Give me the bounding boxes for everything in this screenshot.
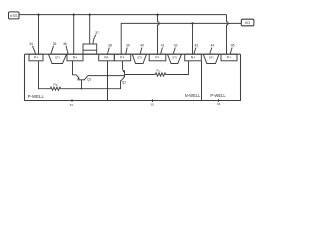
- transistor Q2: [122, 61, 126, 85]
- svg-text:STI: STI: [209, 56, 214, 60]
- label 39: [126, 44, 130, 54]
- svg-text:34: 34: [29, 42, 33, 46]
- svg-text:P+: P+: [155, 56, 159, 60]
- node junction Q1 base: [81, 88, 83, 90]
- node 33 tick: [217, 99, 221, 106]
- STI 35: [49, 54, 67, 63]
- pad box VSS: [9, 12, 20, 19]
- label 40: [140, 44, 144, 54]
- svg-text:P+: P+: [227, 56, 231, 60]
- label 45: [230, 44, 234, 54]
- well boundary P-WELL/N-WELL: [107, 61, 109, 101]
- wire Q2 base to Rn: [125, 74, 154, 76]
- svg-text:N+: N+: [191, 56, 195, 60]
- svg-text:P+: P+: [34, 56, 38, 60]
- node junction VSS bus N+36: [73, 14, 75, 16]
- substrate outline: [25, 54, 241, 100]
- wire drop to N+36: [73, 15, 75, 55]
- diffusion N+ 38: [99, 54, 115, 61]
- svg-text:P-WELL: P-WELL: [28, 94, 45, 99]
- svg-text:32: 32: [151, 103, 155, 107]
- wire drop to P+41 with hop over I/O bus: [158, 15, 160, 55]
- svg-text:n: n: [159, 71, 161, 73]
- diffusion P+ 34: [29, 54, 43, 61]
- node junction I/O bus N+43: [191, 22, 193, 24]
- svg-text:35: 35: [53, 42, 57, 46]
- svg-text:39: 39: [126, 44, 130, 48]
- label 41: [161, 44, 165, 54]
- svg-text:41: 41: [161, 44, 165, 48]
- wire I/O bus: [121, 23, 241, 54]
- well boundary N-WELL/P-WELL: [201, 61, 203, 101]
- node 31 tick: [70, 99, 74, 107]
- svg-text:I/O: I/O: [245, 20, 250, 25]
- wire Rn to N+43: [167, 61, 189, 75]
- label 36: [63, 42, 68, 54]
- wire Q1 collector to Q2 base: [88, 75, 125, 77]
- svg-text:42: 42: [174, 44, 178, 48]
- svg-text:STI: STI: [55, 56, 60, 60]
- svg-text:STI: STI: [137, 56, 142, 60]
- svg-text:40: 40: [140, 44, 144, 48]
- svg-text:N-WELL: N-WELL: [185, 93, 201, 98]
- STI 40: [132, 54, 146, 63]
- substrate surface line: [25, 53, 241, 55]
- pad box I/O: [241, 19, 254, 26]
- resistor Rp: [49, 82, 63, 90]
- svg-text:36: 36: [63, 42, 67, 46]
- node 32 tick: [151, 99, 155, 107]
- label 38: [108, 44, 112, 54]
- label 44: [210, 44, 215, 54]
- svg-text:Q2: Q2: [122, 81, 126, 85]
- resistor Rn: [154, 69, 168, 77]
- svg-text:31: 31: [70, 103, 74, 107]
- svg-text:45: 45: [231, 44, 235, 48]
- svg-text:VSS: VSS: [10, 13, 18, 18]
- svg-text:44: 44: [211, 44, 215, 48]
- STI 44: [203, 54, 219, 63]
- label 34: [29, 42, 35, 54]
- svg-text:38: 38: [108, 44, 112, 48]
- wire Rp to Q1 base and Q2 collector: [62, 80, 122, 89]
- diffusion P+ 45: [221, 54, 237, 61]
- wire drop to P+34: [38, 15, 40, 55]
- svg-text:P: P: [56, 85, 58, 87]
- label 37: [93, 31, 99, 43]
- svg-text:43: 43: [194, 44, 198, 48]
- node junction VSS bus P+34: [37, 14, 39, 16]
- diffusion N+ 36: [67, 54, 83, 61]
- svg-text:P+: P+: [120, 56, 124, 60]
- svg-text:N+: N+: [104, 56, 108, 60]
- label 35: [51, 42, 56, 54]
- node junction VSS bus gate: [89, 14, 91, 16]
- svg-text:P-WELL: P-WELL: [210, 93, 226, 98]
- node junction VSS bus P+41: [156, 14, 158, 16]
- label 42: [173, 44, 177, 54]
- transistor Q1: [73, 61, 92, 89]
- svg-text:33: 33: [217, 102, 221, 106]
- diffusion P+ 39: [114, 54, 130, 61]
- svg-text:N+: N+: [73, 56, 77, 60]
- wire VSS bus right drop with hop over I/O bus: [227, 15, 229, 55]
- STI 42: [168, 54, 182, 63]
- gate 37: [83, 44, 97, 54]
- wire VSS bus: [19, 14, 227, 16]
- wire P+34 to Rp: [39, 61, 49, 89]
- diffusion N+ 43: [185, 54, 202, 61]
- label 43: [194, 44, 198, 54]
- svg-text:STI: STI: [172, 56, 177, 60]
- wire drop to gate 37: [89, 15, 91, 44]
- svg-text:Q1: Q1: [87, 78, 91, 82]
- wire drop to N+43: [192, 23, 194, 54]
- diffusion P+ 41: [149, 54, 166, 61]
